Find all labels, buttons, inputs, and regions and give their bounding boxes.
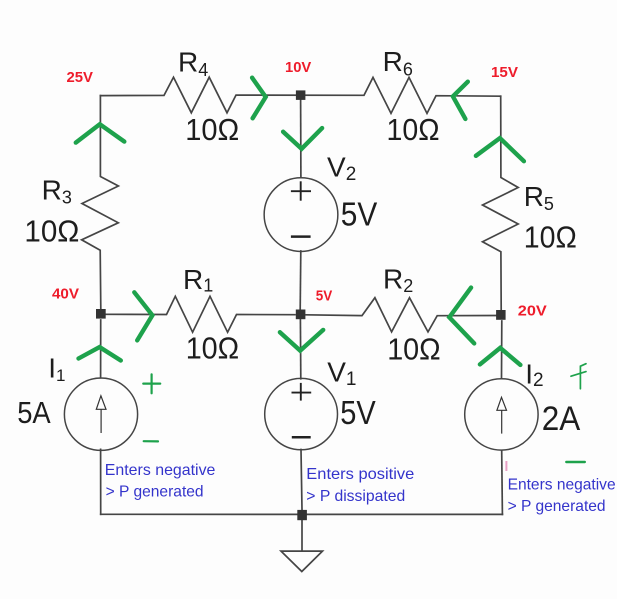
svg-text:Enters negative: Enters negative (105, 462, 216, 479)
svg-text:> P dissipated: > P dissipated (306, 488, 405, 505)
svg-text:> P generated: > P generated (508, 498, 606, 515)
svg-text:10V: 10V (285, 59, 311, 76)
svg-text:10Ω: 10Ω (186, 330, 240, 365)
svg-text:Enters negative: Enters negative (508, 477, 616, 494)
svg-text:V2: V2 (327, 152, 356, 186)
svg-text:20V: 20V (518, 303, 547, 320)
svg-text:R1: R1 (183, 264, 213, 296)
svg-text:2A: 2A (542, 400, 581, 438)
svg-text:10Ω: 10Ω (24, 214, 79, 249)
svg-text:15V: 15V (491, 64, 518, 81)
svg-text:5V: 5V (341, 196, 378, 233)
svg-text:10Ω: 10Ω (524, 219, 577, 254)
svg-text:10Ω: 10Ω (387, 112, 440, 147)
svg-text:R3: R3 (42, 175, 72, 208)
svg-text:R6: R6 (383, 46, 413, 79)
svg-text:5V: 5V (316, 287, 333, 304)
svg-text:40V: 40V (52, 286, 79, 303)
svg-text:R2: R2 (383, 264, 413, 297)
svg-text:5V: 5V (340, 394, 376, 431)
svg-text:25V: 25V (67, 69, 94, 86)
svg-text:10Ω: 10Ω (185, 112, 239, 147)
svg-text:R4: R4 (178, 47, 208, 81)
svg-text:10Ω: 10Ω (387, 332, 441, 367)
svg-text:Enters positive: Enters positive (306, 466, 414, 483)
svg-text:I1: I1 (48, 353, 65, 385)
svg-text:R5: R5 (524, 181, 554, 214)
svg-text:> P generated: > P generated (106, 483, 204, 500)
svg-text:V1: V1 (327, 357, 356, 390)
svg-text:I2: I2 (525, 358, 543, 391)
svg-text:5A: 5A (17, 395, 51, 430)
